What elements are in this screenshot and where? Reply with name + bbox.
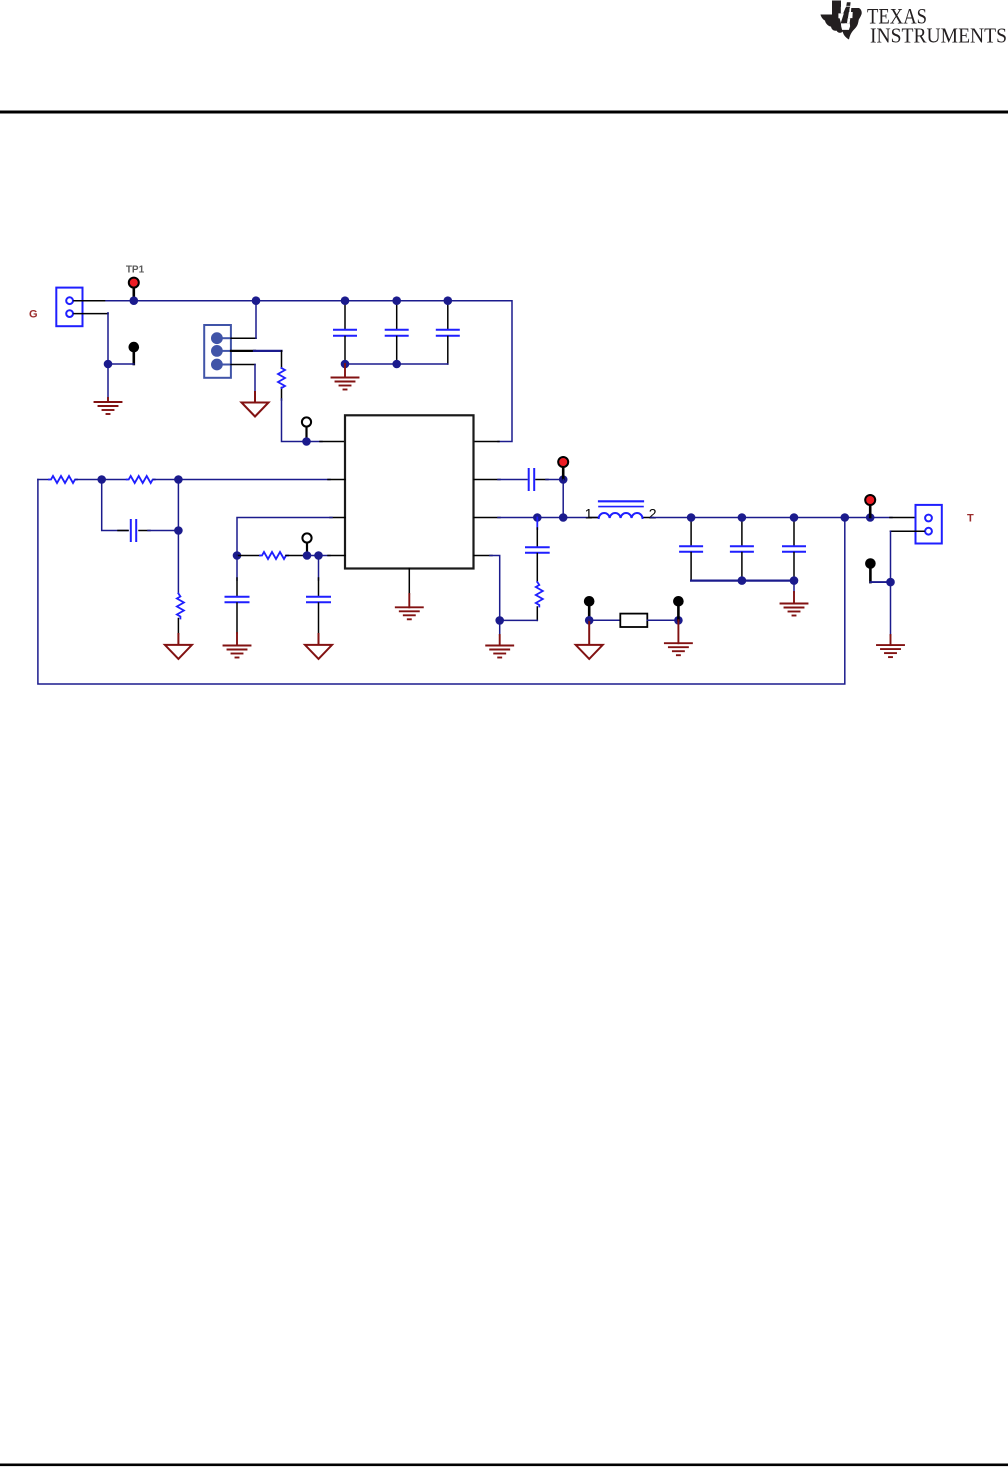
header rule: [0, 111, 1008, 114]
ground (power) below output caps: [781, 592, 808, 616]
node C1 top: [341, 296, 350, 305]
wire feedback loop: [38, 480, 845, 685]
black test point on GND: [869, 569, 872, 582]
ground (signal) below sense left: [576, 620, 603, 659]
cap C5 below SS node: [236, 556, 238, 581]
node sense left: [585, 616, 594, 625]
inductor L1 leads: [590, 517, 653, 519]
input cap C3: [447, 301, 449, 329]
resistor R6 (body): [620, 614, 647, 627]
TI logo Texas bug: [821, 1, 862, 40]
input cap C2: [396, 301, 398, 329]
wire JP1 pin2 lead (thick): [231, 350, 255, 352]
wire PGND down: [499, 620, 501, 635]
resistor R3 (lower FB): [177, 594, 184, 619]
footer rule: [0, 1464, 1008, 1467]
wire output cap bottom bus: [691, 579, 794, 581]
ground (power) below PGND: [486, 635, 513, 658]
wire JP1 pin3 down: [254, 365, 256, 393]
wire lead into IC pin EN: [320, 441, 345, 443]
node SS: [233, 551, 242, 560]
wire cap bottom bus: [345, 363, 448, 365]
black test point near J1: [133, 352, 136, 364]
snubber resistor R5: [536, 582, 543, 607]
svg-text:1: 1: [585, 505, 593, 521]
inductor L1 core bars: [599, 500, 643, 502]
node C10 top: [738, 513, 747, 522]
wire J1 pin2 down: [107, 313, 109, 364]
node sense right: [674, 616, 683, 625]
wire snubber to PGND node: [500, 619, 538, 621]
wire SS line from IC: [330, 517, 345, 519]
cap C6 below node b: [318, 556, 320, 581]
test point TP (red) on VOUT: [869, 505, 872, 517]
output cap C11: [793, 518, 795, 547]
input cap C1: [344, 301, 346, 329]
node VOUT tp: [866, 513, 875, 522]
node bus C10: [738, 576, 747, 585]
wire resistor down and to IC: [282, 399, 323, 442]
node EN: [302, 437, 311, 446]
node C11 top: [790, 513, 799, 522]
output cap C10: [741, 518, 743, 547]
node SW snubber: [533, 513, 542, 522]
ground (signal) below R3: [165, 634, 192, 659]
wire JP1 pin2 to resistor (thick): [254, 350, 282, 352]
ground (power) below sense right: [665, 620, 692, 655]
wire SW rail: [474, 517, 500, 519]
ground (power) below cap bus: [332, 364, 359, 390]
node VOUT feedback: [841, 513, 850, 522]
node: [104, 360, 113, 369]
feedback resistor R1: [38, 479, 49, 481]
black test point sense right: [677, 607, 680, 620]
wire BOOT node down to SW rail: [562, 480, 564, 518]
wire lead into IC pin FB: [328, 479, 345, 481]
header JP1 (3-pin): [204, 325, 231, 378]
wire resistor to sense right: [647, 619, 678, 621]
ground (power) below J1: [95, 398, 122, 414]
test point (open) on EN: [305, 427, 307, 442]
wire J2 pin2 down: [890, 531, 892, 582]
boot cap C7: [529, 469, 535, 490]
wire bus down: [793, 581, 795, 592]
resistor R-EN leads: [281, 351, 283, 400]
output cap C9: [690, 518, 692, 547]
wire sense left to resistor: [589, 619, 621, 621]
node GND J2: [886, 578, 895, 587]
node PGND: [495, 616, 504, 625]
wire J1 pin1 lead: [74, 300, 108, 302]
node row a: [303, 551, 312, 560]
wire JP1 pin1 up to rail: [255, 301, 257, 339]
svg-text:2: 2: [649, 505, 657, 521]
wire JP1 pin3 lead: [231, 364, 255, 366]
connector J1 (input): [56, 288, 82, 327]
feedback resistor R2: [102, 479, 127, 481]
feed-forward cap C4: [102, 480, 128, 531]
black test point sense left: [588, 607, 591, 620]
node on rail at TP1: [130, 296, 139, 305]
node SW boot: [559, 513, 568, 522]
wire test point to node: [108, 363, 134, 365]
svg-text:T: T: [967, 513, 974, 525]
inductor L1 winding: [599, 513, 643, 518]
node C3 top: [444, 296, 453, 305]
test point TP (red) on SW: [562, 467, 565, 479]
IC ground pin: [408, 569, 410, 595]
test point TP1 (red): [133, 288, 136, 300]
wire JP1 pin1 lead: [231, 337, 256, 339]
wire IC PGND pin: [474, 555, 492, 557]
node cap bus 1: [341, 360, 350, 369]
ground (power) below C5: [224, 633, 251, 658]
snubber cap C8: [536, 518, 538, 530]
IC U1: [345, 415, 474, 568]
node C4 right: [174, 526, 183, 535]
ground (power) below IC: [396, 594, 423, 619]
test point (open) on row: [306, 543, 308, 556]
node row b: [314, 551, 323, 560]
wire main top rail: [106, 301, 512, 442]
node bus C11: [790, 576, 799, 585]
node FB2: [174, 475, 183, 484]
svg-text:G: G: [29, 309, 38, 321]
wire IC pin lead top-right: [474, 441, 499, 443]
wire VOUT rail: [651, 517, 892, 519]
svg-text:TP1: TP1: [126, 265, 145, 276]
wire J2 pin2 lead: [891, 530, 925, 532]
node C2 top: [392, 296, 401, 305]
resistor R4 on SS row: [237, 555, 260, 557]
node BOOT: [559, 475, 568, 484]
resistor R-EN zigzag: [278, 368, 285, 388]
wire test point to node: [870, 581, 890, 583]
ground (power) below J2: [877, 635, 904, 657]
wire node down: [890, 582, 892, 635]
ground (signal) below JP1: [242, 392, 269, 417]
wire J1 pin2 lead: [74, 313, 108, 315]
wire node down to ground: [107, 364, 109, 398]
TI logo wordmark: [867, 4, 1007, 48]
svg-text:INSTRUMENTS: INSTRUMENTS: [870, 23, 1007, 47]
node cap bus 2: [392, 360, 401, 369]
wire BOOT pin lead: [474, 479, 500, 481]
wire FB2 down: [177, 480, 179, 594]
node rail/JP1: [252, 296, 261, 305]
node C9 top: [687, 513, 696, 522]
connector J2 (output): [916, 505, 942, 544]
node FB1: [97, 475, 106, 484]
ground (signal) below C6: [305, 634, 332, 659]
